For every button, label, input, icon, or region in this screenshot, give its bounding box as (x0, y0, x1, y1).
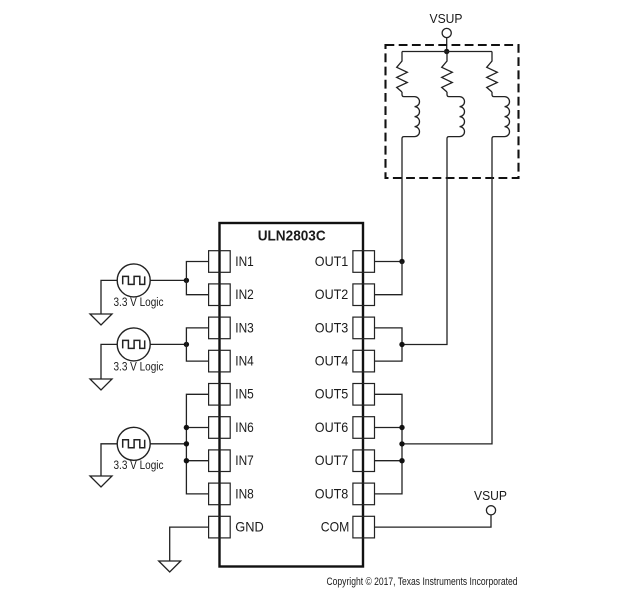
pin OUT1 (315, 251, 375, 273)
wire COM to VSUP terminal (375, 515, 492, 527)
pin OUT5 (315, 384, 375, 406)
source V2 3.3 V Logic (pulse source) (117, 328, 150, 361)
op-amp U1 ULN2803C package body (220, 223, 364, 567)
ground (V1) (90, 314, 112, 325)
junction dot OUT1 (399, 259, 404, 264)
junction dot V1 (184, 278, 189, 283)
pin IN8 (209, 483, 254, 505)
pin IN2 (209, 284, 254, 306)
svg-text:OUT5: OUT5 (315, 386, 349, 402)
svg-text:ULN2803C: ULN2803C (258, 227, 326, 244)
wire load branch 1 down to OUT1 (401, 140, 403, 262)
svg-text:3.3 V Logic: 3.3 V Logic (114, 460, 164, 472)
wire OUT1 to load branch 1 (375, 261, 403, 263)
wire V3 to ground (101, 444, 117, 476)
wire load branch 3 down to OUT6/OUT7 junction (402, 140, 492, 444)
pin OUT7 (315, 450, 375, 472)
wire OUT2 tie to OUT1 (375, 262, 403, 295)
wire V2 to ground (101, 344, 117, 379)
junction dot branch 3 feed (399, 441, 404, 446)
resistor (load branch 3) (487, 52, 498, 93)
svg-text:3.3 V Logic: 3.3 V Logic (114, 361, 164, 373)
svg-text:OUT8: OUT8 (315, 485, 349, 501)
wire GND pin to ground (170, 527, 209, 561)
svg-text:OUT4: OUT4 (315, 353, 349, 369)
wire OUT3/OUT4 tie (375, 328, 403, 361)
ground (GND pin) (159, 561, 181, 572)
svg-text:VSUP: VSUP (430, 12, 463, 26)
wire junction to IN3 and IN4 (186, 328, 208, 361)
svg-text:OUT7: OUT7 (315, 452, 349, 468)
pin OUT6 (315, 417, 375, 439)
wire V1 output to IN1/IN2 junction (150, 279, 186, 281)
junction dot OUT6 (399, 425, 404, 430)
svg-text:IN5: IN5 (235, 386, 254, 402)
node VSUP (top supply terminal) (430, 12, 463, 38)
source V3 3.3 V Logic (pulse source) (117, 427, 150, 460)
node VSUP (COM terminal) (474, 489, 507, 515)
pin IN5 (209, 384, 254, 406)
pin OUT3 (315, 317, 375, 339)
pin GND (209, 516, 264, 538)
svg-text:VSUP: VSUP (474, 489, 507, 503)
resistor (load branch 2) (442, 52, 453, 93)
svg-text:OUT3: OUT3 (315, 319, 349, 335)
junction dot OUT7 (399, 458, 404, 463)
pin IN4 (209, 350, 254, 372)
junction dot V3 feed (184, 441, 189, 446)
ground (V2) (90, 379, 112, 390)
junction dot on top rail (444, 49, 449, 54)
ground (V3) (90, 476, 112, 487)
svg-text:Copyright © 2017, Texas Instru: Copyright © 2017, Texas Instruments Inco… (327, 576, 518, 588)
junction dot OUT3/OUT4 (399, 342, 404, 347)
pin COM (321, 516, 375, 538)
junction dot V3-IN7 (184, 458, 189, 463)
svg-text:IN7: IN7 (235, 452, 254, 468)
load enclosure (dashed box) (386, 45, 519, 178)
pin IN3 (209, 317, 254, 339)
wire junction bus to IN5 IN6 IN7 IN8 (186, 394, 208, 494)
pin OUT4 (315, 350, 375, 372)
pin IN7 (209, 450, 254, 472)
svg-text:IN8: IN8 (235, 485, 254, 501)
wire OUT5-OUT8 bus (375, 394, 403, 494)
pin OUT2 (315, 284, 375, 306)
svg-text:IN4: IN4 (235, 353, 254, 369)
inductor (load branch 1) (402, 92, 420, 140)
junction dot V2 (184, 342, 189, 347)
pin OUT8 (315, 483, 375, 505)
svg-text:COM: COM (321, 519, 350, 535)
wire V3 output to IN5-IN8 junction (150, 443, 186, 445)
svg-text:GND: GND (235, 519, 263, 535)
svg-text:IN2: IN2 (235, 286, 254, 302)
wire top rail joining three load branches (402, 51, 492, 53)
pin IN6 (209, 417, 254, 439)
wire V1 to ground (101, 280, 117, 314)
junction dot V3-IN6 (184, 425, 189, 430)
resistor (load branch 1) (397, 52, 408, 93)
svg-text:OUT6: OUT6 (315, 419, 349, 435)
inductor (load branch 2) (447, 92, 465, 140)
wire junction to IN1 and IN2 (186, 262, 208, 295)
wire VSUP terminal to top rail (446, 38, 448, 52)
svg-text:IN1: IN1 (235, 253, 254, 269)
pin IN1 (209, 251, 254, 273)
svg-text:IN3: IN3 (235, 319, 254, 335)
svg-text:OUT2: OUT2 (315, 286, 349, 302)
svg-text:IN6: IN6 (235, 419, 254, 435)
inductor (load branch 3) (492, 92, 510, 140)
wire V2 output to IN3/IN4 junction (150, 343, 186, 345)
svg-text:3.3 V Logic: 3.3 V Logic (114, 297, 164, 309)
wire load branch 2 down to OUT3/OUT4 junction (402, 140, 447, 345)
source V1 3.3 V Logic (pulse source) (117, 264, 150, 297)
svg-text:OUT1: OUT1 (315, 253, 349, 269)
